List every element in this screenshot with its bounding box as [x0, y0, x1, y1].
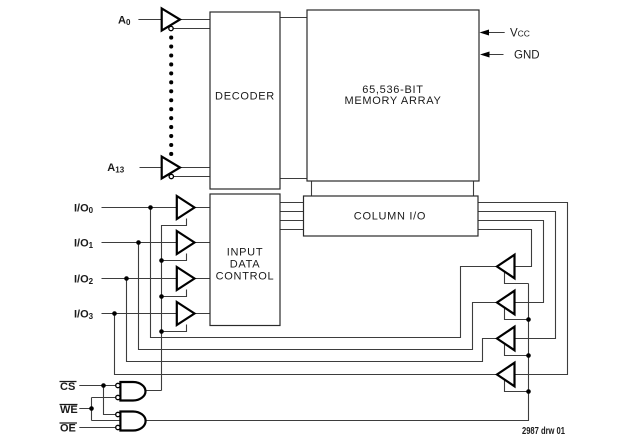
svg-text:GND: GND [514, 50, 540, 62]
svg-text:COLUMN I/O: COLUMN I/O [354, 211, 426, 223]
svg-text:CS: CS [60, 381, 75, 393]
svg-text:DATA: DATA [230, 258, 261, 270]
svg-text:MEMORY ARRAY: MEMORY ARRAY [344, 95, 441, 107]
svg-text:VCC: VCC [510, 28, 530, 40]
svg-text:WE: WE [60, 404, 78, 416]
svg-text:DECODER: DECODER [215, 91, 275, 103]
svg-text:2987 drw 01: 2987 drw 01 [522, 426, 565, 437]
svg-text:CONTROL: CONTROL [216, 270, 275, 282]
svg-text:INPUT: INPUT [227, 246, 264, 258]
svg-text:OE: OE [60, 423, 76, 435]
